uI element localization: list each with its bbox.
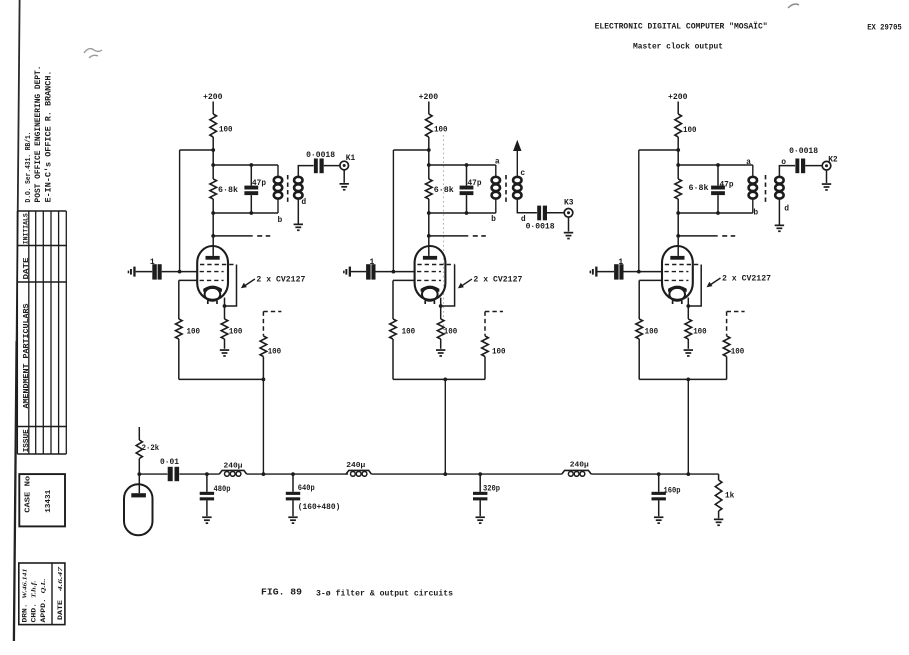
capacitor 160p shunt xyxy=(652,472,681,524)
wire: tank top bus, stage 1 xyxy=(213,164,278,166)
svg-text:100: 100 xyxy=(693,328,707,337)
label and leader arrow: 2 x CV2127, stage 2 xyxy=(458,276,523,289)
svg-text:POST OFFICE ENGINEERING DEPT.: POST OFFICE ENGINEERING DEPT. xyxy=(34,66,43,203)
svg-text:240µ: 240µ xyxy=(570,461,590,469)
wire: bus segment 4 xyxy=(371,473,561,475)
capacitor 47p tank, stage 1 xyxy=(244,163,266,215)
wire: second grid tap, stage 1 xyxy=(179,280,197,319)
terminal K2 xyxy=(822,155,838,170)
inductor 240u (2) xyxy=(346,462,371,476)
svg-text:2·2k: 2·2k xyxy=(142,444,160,453)
svg-text:6·8k: 6·8k xyxy=(434,186,454,195)
svg-text:o: o xyxy=(781,158,786,167)
wire: tank bottom bus, stage 2 xyxy=(427,211,496,215)
capacitor 0.0018 output, stage 1 xyxy=(306,151,340,173)
resistor 100 cathode, stage 3 xyxy=(685,298,707,349)
transformer core, stage 3 xyxy=(765,175,767,204)
svg-text:100: 100 xyxy=(731,348,745,357)
svg-text:+200: +200 xyxy=(203,93,223,102)
svg-text:CASE No: CASE No xyxy=(25,475,33,513)
svg-text:AMENDMENT PARTICULARS: AMENDMENT PARTICULARS xyxy=(23,304,31,409)
wire: HT rail down to tank, stage 2 xyxy=(427,137,431,167)
svg-text:CHD. T.h.f.: CHD. T.h.f. xyxy=(30,580,37,623)
svg-text:240µ: 240µ xyxy=(346,462,366,470)
resistor 100 output tap with dashed feed, stage 1 xyxy=(260,312,281,380)
svg-text:100: 100 xyxy=(434,126,448,135)
resistor 100 (HT feed), stage 1 xyxy=(210,114,233,137)
capacitor 47p tank, stage 3 xyxy=(711,163,734,215)
svg-text:6·8k: 6·8k xyxy=(689,184,709,193)
wire: anode lead, stage 2 xyxy=(427,213,431,256)
svg-text:E-IN-C's OFFICE R. BRANCH.: E-IN-C's OFFICE R. BRANCH. xyxy=(45,71,54,203)
svg-text:1k: 1k xyxy=(725,492,735,501)
transformer primary winding, stage 3 xyxy=(746,158,758,218)
transformer secondary winding with arrow, stage 2 xyxy=(513,140,537,224)
capacitor 640p shunt xyxy=(286,472,341,524)
wire: grid to cathode loop, stage 1 xyxy=(223,265,237,308)
svg-text:100: 100 xyxy=(645,328,659,337)
resistor 100 grid leak, stage 3 xyxy=(636,319,658,379)
svg-text:100: 100 xyxy=(229,328,243,337)
wire: HT rail down to tank, stage 3 xyxy=(676,137,680,167)
ground: 1k termination xyxy=(714,519,723,527)
svg-text:640p: 640p xyxy=(298,484,315,493)
svg-text:100: 100 xyxy=(187,328,201,337)
svg-text:100: 100 xyxy=(219,126,233,135)
label and leader arrow: 2 x CV2127, stage 3 xyxy=(707,275,772,288)
valve 2 x CV2127 double triode, stage 3 xyxy=(662,246,701,304)
wire: second grid tap, stage 2 xyxy=(393,280,415,319)
svg-text:1: 1 xyxy=(150,258,155,267)
svg-text:K3: K3 xyxy=(564,198,574,207)
svg-text:480p: 480p xyxy=(214,485,231,494)
svg-text:INITIALS: INITIALS xyxy=(23,213,30,244)
node: oscillator junction xyxy=(137,472,141,476)
node: stage 2 drop on bus xyxy=(443,472,447,476)
wire: stage bottom bus and drop, stage 3 xyxy=(639,378,726,475)
svg-text:a: a xyxy=(495,157,500,166)
svg-text:a: a xyxy=(746,158,751,167)
resistor 6.8k tank, stage 3 xyxy=(675,165,709,213)
wire: anode lead, stage 1 xyxy=(211,213,215,256)
svg-text:DATE: DATE xyxy=(57,600,64,620)
transformer primary winding, stage 2 xyxy=(491,157,500,224)
svg-text:100: 100 xyxy=(444,328,458,337)
ground: secondary, stage 1 xyxy=(294,224,303,232)
terminal K3 xyxy=(564,198,574,217)
wire: bus segment 5 xyxy=(591,473,718,475)
inductor 240u (1) xyxy=(219,463,246,477)
svg-text:d: d xyxy=(301,198,306,207)
wire: grid to cathode loop, stage 3 xyxy=(686,265,701,308)
svg-text:320p: 320p xyxy=(483,485,500,494)
wire: stage bottom bus and drop, stage 1 xyxy=(179,378,265,475)
wire: dashed continuation stub, stage 1 xyxy=(213,235,270,237)
ground: cathode, stage 3 xyxy=(684,349,693,357)
inductor 240u (3) xyxy=(562,461,591,476)
ground: K3 xyxy=(564,217,573,239)
svg-text:1: 1 xyxy=(369,258,374,267)
resistor 100 cathode, stage 2 xyxy=(437,298,457,349)
svg-text:K1: K1 xyxy=(346,154,356,163)
svg-text:160p: 160p xyxy=(664,487,681,496)
svg-text:D.O. Ser.431. RB/1.: D.O. Ser.431. RB/1. xyxy=(25,132,33,203)
transformer core, stage 1 xyxy=(287,175,289,204)
wire: tank bottom bus, stage 3 xyxy=(676,211,753,215)
capacitor 1 grid coupling, stage 3 xyxy=(614,258,639,280)
terminal: input, stage 2 xyxy=(343,267,366,277)
wire: anode lead, stage 3 xyxy=(676,213,680,256)
wire: tank top bus, stage 2 xyxy=(429,164,496,166)
terminal K1 xyxy=(340,154,356,170)
resistor 2.2k oscillator feed xyxy=(136,427,159,474)
resistor 100 (HT feed), stage 3 xyxy=(675,114,697,137)
wire: dashed continuation stub, stage 2 xyxy=(429,235,486,237)
svg-text:(160+480): (160+480) xyxy=(298,503,341,512)
svg-text:APPD. Q.L.: APPD. Q.L. xyxy=(40,578,47,623)
valve 2 x CV2127 double triode, stage 2 xyxy=(415,246,455,304)
svg-text:+200: +200 xyxy=(668,93,688,102)
svg-text:FIG. 89: FIG. 89 xyxy=(261,587,302,598)
transformer secondary winding, stage 1 xyxy=(294,166,314,224)
transformer core, stage 2 xyxy=(505,175,507,204)
svg-text:100: 100 xyxy=(268,348,282,357)
wire: feedback line to grid, stage 3 xyxy=(639,150,678,272)
resistor 100 (HT feed), stage 2 xyxy=(426,114,448,137)
resistor 100 grid leak, stage 2 xyxy=(390,319,416,379)
terminal: input, stage 3 xyxy=(590,267,614,277)
svg-text:b: b xyxy=(277,216,282,225)
svg-text:2 x CV2127: 2 x CV2127 xyxy=(722,275,771,284)
ground: K2 xyxy=(822,170,831,191)
capacitor 0.0018 output, stage 2 xyxy=(526,206,565,232)
svg-text:c: c xyxy=(520,169,525,178)
ground: secondary, stage 3 xyxy=(775,225,784,233)
transformer secondary winding, stage 3 xyxy=(775,158,795,225)
node: grid junction, stage 1 xyxy=(178,270,197,274)
svg-text:b: b xyxy=(491,215,496,224)
resistor 100 output tap with dashed feed, stage 3 xyxy=(723,312,744,380)
svg-text:d: d xyxy=(784,204,789,213)
node +200 supply, stage 3 xyxy=(668,93,688,114)
svg-text:100: 100 xyxy=(683,126,697,135)
svg-text:47p: 47p xyxy=(252,179,266,188)
svg-text:6·8k: 6·8k xyxy=(218,186,238,195)
svg-text:b: b xyxy=(753,209,758,218)
capacitor 0.01 series xyxy=(160,458,179,481)
label and leader arrow: 2 x CV2127, stage 1 xyxy=(241,276,306,289)
wire: tank top bus, stage 3 xyxy=(678,164,753,166)
resistor 100 cathode, stage 1 xyxy=(221,298,242,349)
wire: tank bottom bus, stage 1 xyxy=(211,211,278,215)
capacitor 1 grid coupling, stage 2 xyxy=(366,258,393,280)
svg-text:DRN. W.46.141: DRN. W.46.141 xyxy=(21,569,28,623)
wire: HT rail down to tank, stage 1 xyxy=(211,137,215,167)
transformer primary winding, stage 1 xyxy=(274,165,283,225)
resistor 100 grid leak, stage 1 xyxy=(176,319,201,379)
svg-text:240µ: 240µ xyxy=(224,463,244,471)
svg-text:3-ø filter & output circuits: 3-ø filter & output circuits xyxy=(316,589,453,598)
svg-text:1: 1 xyxy=(618,258,623,267)
ground: cathode, stage 2 xyxy=(436,349,445,357)
svg-text:DATE: DATE xyxy=(23,258,31,280)
ground: cathode, stage 1 xyxy=(220,349,229,357)
svg-text:Master clock output: Master clock output xyxy=(633,43,723,52)
capacitor 480p shunt xyxy=(200,472,231,524)
svg-text:ELECTRONIC DIGITAL COMPUTER "M: ELECTRONIC DIGITAL COMPUTER "MOSAÏC" xyxy=(595,23,768,32)
svg-text:13431: 13431 xyxy=(45,489,53,512)
svg-text:+200: +200 xyxy=(419,93,439,102)
svg-text:2 x CV2127: 2 x CV2127 xyxy=(473,276,522,285)
svg-text:0·0018: 0·0018 xyxy=(526,223,555,232)
node: grid junction, stage 2 xyxy=(392,270,415,274)
wire: dashed continuation stub, stage 3 xyxy=(678,235,735,237)
valve 2 x CV2127 double triode, stage 1 xyxy=(197,246,236,304)
resistor 6.8k tank, stage 1 xyxy=(210,165,238,213)
svg-text:100: 100 xyxy=(402,328,416,337)
svg-text:47p: 47p xyxy=(720,181,734,190)
capacitor 47p tank, stage 2 xyxy=(460,163,482,215)
wire: stage bottom bus and drop, stage 2 xyxy=(393,378,485,475)
svg-text:ISSUE: ISSUE xyxy=(23,429,31,452)
wire: bus segment 2 xyxy=(179,473,219,475)
wire: grid to cathode loop, stage 2 xyxy=(439,265,455,308)
crystal / oscillator envelope xyxy=(124,474,153,535)
svg-text:0·0018: 0·0018 xyxy=(789,147,818,156)
capacitor 1 grid coupling, stage 1 xyxy=(150,258,180,280)
svg-text:47p: 47p xyxy=(468,179,482,188)
node: stage 3 drop on bus xyxy=(686,472,690,476)
svg-text:2 x CV2127: 2 x CV2127 xyxy=(256,276,305,285)
wire: bus segment 1 xyxy=(139,473,167,475)
capacitor 320p shunt xyxy=(473,472,500,524)
wire: feedback line to grid, stage 1 xyxy=(180,150,214,272)
capacitor 0.0018 output, stage 3 xyxy=(789,147,822,173)
node +200 supply, stage 2 xyxy=(419,93,439,114)
resistor 1k termination xyxy=(715,474,734,518)
svg-text:4.6.47: 4.6.47 xyxy=(58,565,64,592)
node +200 supply, stage 1 xyxy=(203,93,223,114)
svg-text:0·0018: 0·0018 xyxy=(306,151,335,160)
svg-text:0·01: 0·01 xyxy=(160,458,179,467)
wire: second grid tap, stage 3 xyxy=(639,280,662,319)
svg-text:100: 100 xyxy=(492,348,506,357)
ground: K1 xyxy=(340,170,349,191)
svg-text:K2: K2 xyxy=(828,155,838,164)
svg-text:EX 29705: EX 29705 xyxy=(867,24,902,33)
node: grid junction, stage 3 xyxy=(637,270,662,274)
wire: bus segment 3 xyxy=(247,473,348,475)
resistor 6.8k tank, stage 2 xyxy=(426,165,455,213)
node: stage 1 drop on bus xyxy=(262,472,266,476)
terminal: input, stage 1 xyxy=(128,267,153,277)
resistor 100 output tap with dashed feed, stage 2 xyxy=(482,312,506,380)
wire: feedback line to grid, stage 2 xyxy=(393,150,428,272)
